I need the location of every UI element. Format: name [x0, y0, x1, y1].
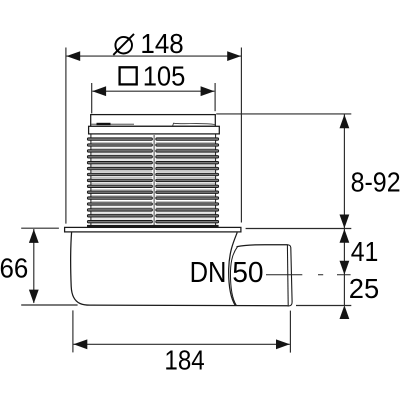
housing dome right curve	[229, 233, 238, 306]
dim 8-92 top extension line	[216, 113, 351, 115]
outlet pipe mouth line	[286, 245, 289, 306]
dim 66 up arrow	[29, 229, 39, 243]
dim Ø148 right extension line	[240, 48, 242, 223]
riser bottom dark band	[87, 225, 219, 228]
outlet pipe end cap	[287, 245, 292, 306]
dim □105 left extension line	[91, 83, 93, 113]
dim Ø148 line	[66, 55, 241, 57]
dim 66 line	[33, 229, 35, 303]
dim 66 bottom extension line	[21, 304, 77, 306]
svg-text:41: 41	[351, 236, 379, 267]
dim 25 up arrow	[340, 305, 350, 319]
pipe socket rim curve	[230, 246, 237, 305]
frame wavy edge	[173, 123, 215, 126]
□ symbol	[120, 67, 137, 84]
dim 66 top extension line	[21, 227, 59, 229]
dim Ø148 right arrow	[227, 51, 241, 61]
riser centre seam line	[153, 135, 155, 226]
svg-text:50: 50	[232, 257, 263, 289]
dim 41 down arrow	[340, 261, 350, 275]
housing body outline	[71, 232, 288, 306]
Ø symbol	[113, 34, 134, 55]
dim 184 right extension line	[289, 311, 291, 353]
frame inner line	[91, 123, 134, 125]
dim □105 right extension line	[214, 83, 216, 111]
dim 41 up arrow	[340, 229, 350, 243]
housing flange	[65, 227, 241, 232]
dim 184 right arrow	[276, 339, 290, 349]
dim 8-92 up arrow	[340, 115, 350, 129]
riser right wall	[215, 134, 217, 225]
frame top plate	[91, 115, 216, 127]
svg-text:DN: DN	[190, 257, 227, 289]
dim Ø148 left arrow	[66, 51, 80, 61]
dim 184 left arrow	[74, 339, 88, 349]
riser left wall	[90, 134, 92, 225]
svg-text:25: 25	[349, 273, 379, 304]
right dims vertical line	[343, 115, 345, 306]
dim 25 bottom extension line	[296, 305, 351, 307]
frame dark streak	[97, 123, 111, 125]
dim 8-92 / 41 shared extension line	[246, 228, 352, 230]
pipe centreline dashes	[266, 274, 351, 276]
dim □105 line	[92, 90, 214, 92]
svg-text:66: 66	[0, 253, 28, 284]
svg-text:184: 184	[164, 344, 204, 375]
outlet pipe top edge	[237, 245, 288, 247]
riser trough lines	[92, 142, 215, 219]
dim 184 left extension line	[72, 310, 74, 352]
dim Ø148 left extension line	[65, 48, 67, 224]
svg-text:105: 105	[143, 61, 186, 92]
svg-text:148: 148	[140, 28, 183, 59]
dim 66 down arrow	[29, 290, 39, 304]
svg-text:8-92: 8-92	[351, 167, 400, 198]
dim 184 line	[74, 343, 290, 345]
riser rib crests	[87, 138, 218, 223]
dim □105 left arrow	[92, 86, 106, 96]
dim 8-92 down arrow	[340, 215, 350, 229]
frame base plate	[89, 126, 220, 134]
dim □105 right arrow	[201, 86, 215, 96]
